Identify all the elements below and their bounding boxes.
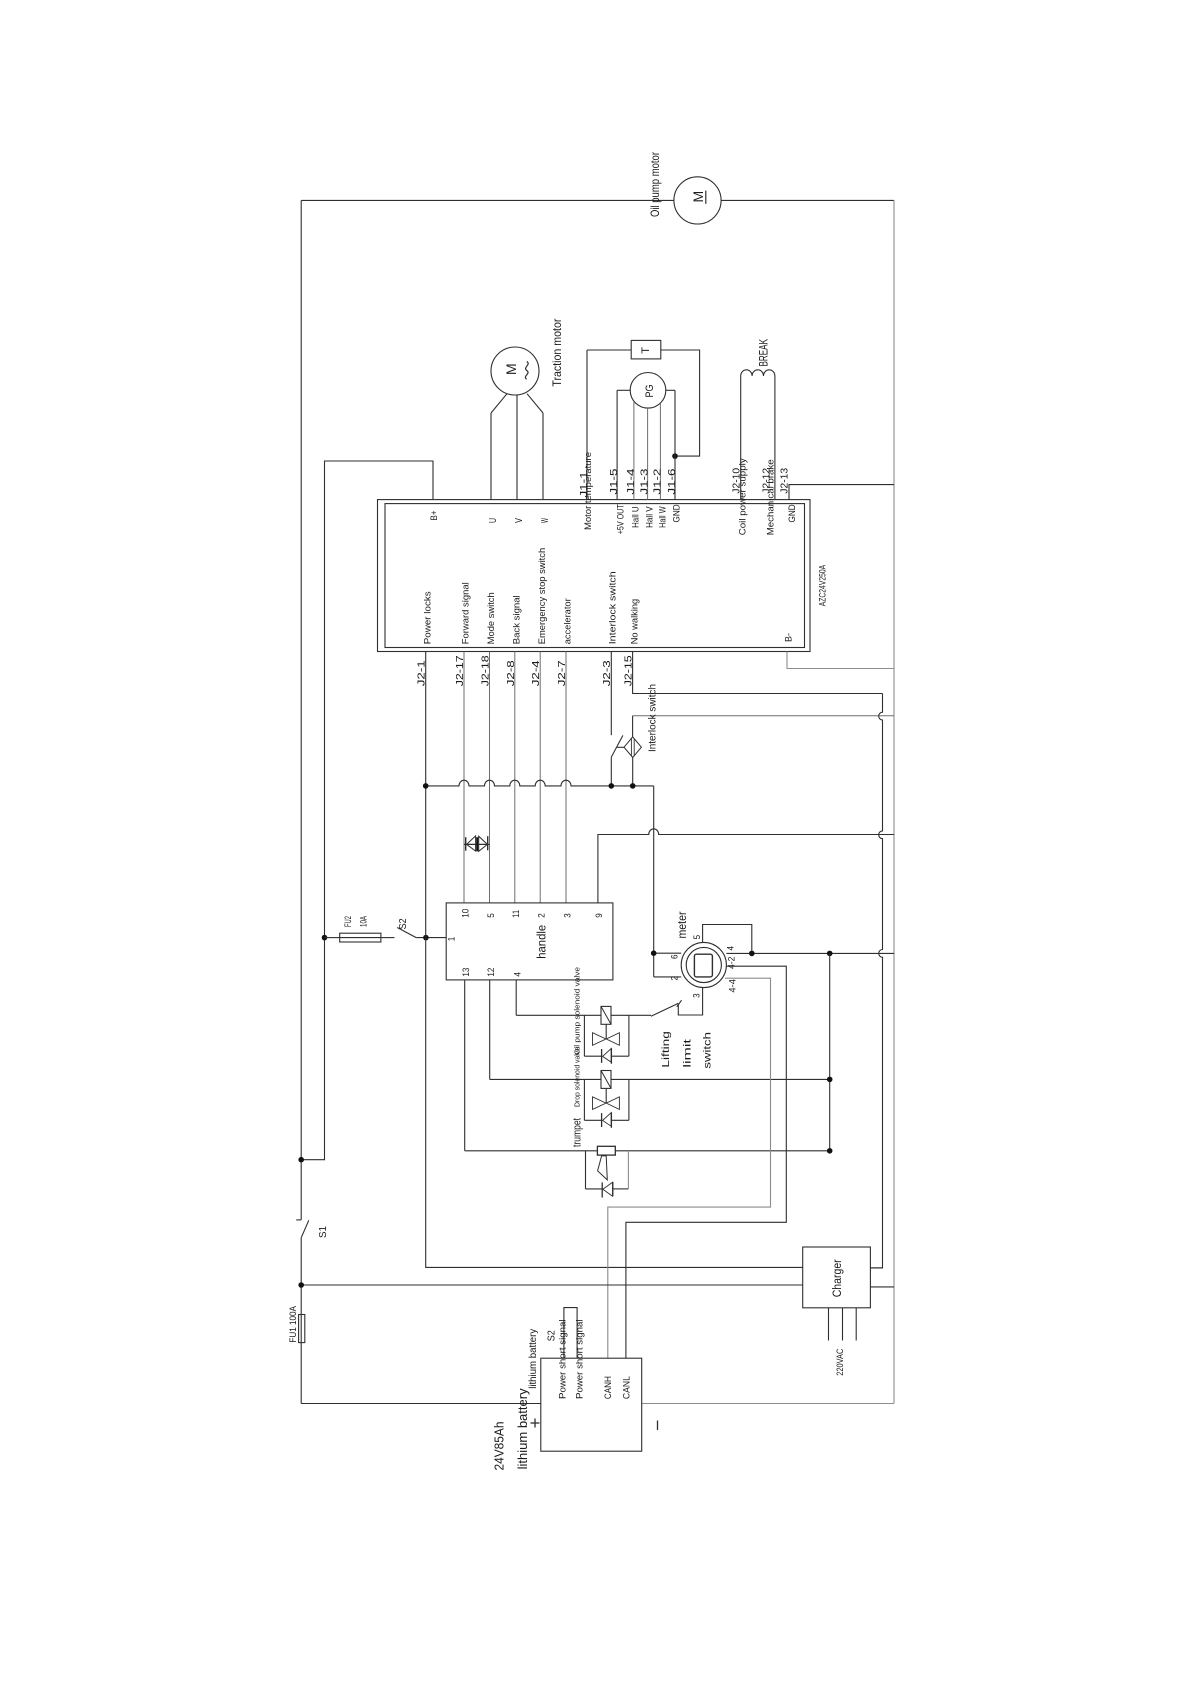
svg-text:GND: GND (787, 504, 798, 522)
svg-text:10A: 10A (359, 916, 370, 927)
svg-text:5: 5 (486, 913, 496, 918)
svg-text:+5V OUT: +5V OUT (616, 504, 627, 534)
svg-text:lithium battery: lithium battery (515, 1388, 530, 1469)
svg-text:AZC24V250A: AZC24V250A (818, 564, 829, 606)
svg-text:Emergency stop switch: Emergency stop switch (537, 548, 548, 645)
svg-text:S2: S2 (546, 1330, 557, 1341)
svg-text:T: T (640, 347, 652, 354)
svg-text:J1-2: J1-2 (652, 468, 663, 495)
svg-text:FU1 100A: FU1 100A (288, 1305, 299, 1342)
svg-text:BREAK: BREAK (757, 339, 771, 367)
svg-text:J2-13: J2-13 (780, 467, 791, 493)
svg-text:24V85Ah: 24V85Ah (491, 1422, 506, 1471)
svg-text:J1-5: J1-5 (609, 468, 620, 495)
svg-text:4-4: 4-4 (728, 979, 738, 993)
svg-text:3: 3 (562, 913, 572, 918)
svg-text:J1-1: J1-1 (579, 471, 590, 498)
svg-text:5: 5 (692, 935, 702, 940)
svg-text:lithium battery: lithium battery (528, 1329, 539, 1389)
svg-text:meter: meter (677, 911, 689, 938)
svg-text:12: 12 (486, 968, 496, 977)
svg-text:Back signal: Back signal (512, 595, 523, 644)
svg-text:trumpet: trumpet (572, 1118, 584, 1147)
svg-text:No walking: No walking (629, 599, 640, 645)
svg-text:J2-12: J2-12 (761, 467, 772, 493)
svg-text:V: V (514, 518, 525, 523)
svg-text:Hall U: Hall U (631, 506, 642, 528)
svg-text:3: 3 (691, 993, 701, 998)
svg-text:Charger: Charger (832, 1259, 844, 1297)
svg-text:handle: handle (537, 925, 549, 959)
svg-text:2: 2 (537, 913, 547, 918)
svg-text:1: 1 (447, 937, 457, 942)
svg-text:Traction motor: Traction motor (550, 319, 564, 387)
svg-text:13: 13 (461, 968, 471, 977)
svg-text:4: 4 (726, 946, 736, 951)
svg-text:Lifting: Lifting (660, 1031, 672, 1068)
svg-text:S2: S2 (398, 918, 409, 929)
svg-text:W: W (540, 518, 551, 523)
svg-text:9: 9 (594, 913, 604, 918)
svg-text:Interlock switch: Interlock switch (608, 571, 619, 644)
svg-text:CANH: CANH (603, 1376, 614, 1399)
svg-text:J1-3: J1-3 (640, 468, 651, 495)
svg-text:M: M (503, 363, 519, 375)
svg-text:S1: S1 (317, 1226, 329, 1238)
svg-text:Forward signal: Forward signal (461, 582, 472, 644)
svg-text:FU2: FU2 (343, 916, 354, 927)
svg-text:Oil pump motor: Oil pump motor (648, 152, 662, 217)
svg-text:CANL: CANL (621, 1376, 632, 1399)
svg-text:B-: B- (784, 633, 795, 642)
svg-text:Interlock switch: Interlock switch (647, 684, 659, 752)
svg-text:GND: GND (671, 504, 682, 522)
svg-text:J1-4: J1-4 (626, 468, 637, 495)
svg-text:B+: B+ (429, 510, 440, 520)
svg-text:switch: switch (702, 1032, 714, 1069)
svg-text:Power short signal: Power short signal (575, 1320, 585, 1400)
svg-text:accelerator: accelerator (563, 598, 574, 644)
svg-text:Hall W: Hall W (657, 506, 668, 528)
svg-text:Power locks: Power locks (422, 591, 433, 644)
svg-text:6: 6 (670, 955, 680, 960)
svg-text:11: 11 (511, 910, 521, 918)
svg-text:PG: PG (644, 385, 656, 398)
svg-text:M: M (690, 191, 706, 203)
svg-text:Oil pump solenoid valve: Oil pump solenoid valve (572, 967, 581, 1055)
svg-text:Mode switch: Mode switch (486, 592, 497, 644)
svg-text:2: 2 (670, 976, 680, 981)
svg-text:4-2: 4-2 (727, 957, 737, 970)
svg-text:U: U (488, 518, 499, 523)
svg-text:Drop solenoid valve: Drop solenoid valve (572, 1047, 581, 1107)
svg-text:J1-6: J1-6 (667, 468, 678, 495)
svg-text:Power short signal: Power short signal (558, 1320, 568, 1400)
svg-text:limit: limit (681, 1039, 693, 1068)
svg-text:10: 10 (461, 909, 471, 918)
svg-text:Hall V: Hall V (645, 506, 656, 528)
svg-text:J2-10: J2-10 (731, 467, 742, 493)
svg-text:220VAC: 220VAC (835, 1349, 846, 1376)
svg-text:4: 4 (513, 972, 523, 977)
